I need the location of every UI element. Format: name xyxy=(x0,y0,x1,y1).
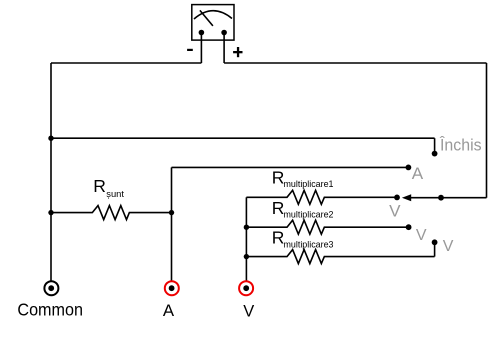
wire meter minus lead xyxy=(200,33,202,64)
resistor R_sunt zigzag row xyxy=(51,206,172,220)
wire A contact row xyxy=(172,166,409,168)
contact V2 dot xyxy=(406,224,412,230)
svg-text:multiplicare2: multiplicare2 xyxy=(284,209,334,220)
contact V3 dot xyxy=(432,239,438,245)
terminal Common dot xyxy=(48,285,54,291)
junction left-inchis xyxy=(48,136,53,141)
meter M1 scale arc xyxy=(194,11,232,19)
svg-text:multiplicare3: multiplicare3 xyxy=(284,238,334,249)
wire inchis row xyxy=(51,137,435,139)
wire A vertical xyxy=(171,167,173,288)
svg-text:A: A xyxy=(412,164,424,183)
wire right vertical xyxy=(486,63,488,198)
svg-text:V: V xyxy=(443,238,454,255)
svg-text:R: R xyxy=(93,176,106,196)
svg-text:multiplicare1: multiplicare1 xyxy=(284,178,334,189)
contact Inchis dot xyxy=(432,151,438,157)
meter M1 needle xyxy=(200,10,213,26)
wire multiplier bus vertical xyxy=(245,197,247,288)
junction shunt-A xyxy=(169,210,174,215)
svg-text:Închis: Închis xyxy=(439,136,482,155)
junction left-shunt xyxy=(48,210,53,215)
wire top right horizontal xyxy=(224,62,486,64)
svg-text:V: V xyxy=(243,301,255,320)
terminal V ring xyxy=(239,281,253,295)
label plus horizontal bar xyxy=(233,51,242,53)
terminal A dot xyxy=(169,285,175,291)
resistor R_multiplicare3 row xyxy=(246,250,434,264)
contact A dot xyxy=(406,165,412,171)
meter M1 minus terminal dot xyxy=(199,30,205,36)
label plus vertical bar xyxy=(237,47,239,57)
wire top left horizontal xyxy=(51,62,201,64)
wire left vertical bus xyxy=(50,63,52,288)
meter M1 box xyxy=(192,5,234,41)
svg-text:A: A xyxy=(163,301,175,320)
switch wiper arrowhead xyxy=(402,194,411,201)
contact V1 dot xyxy=(394,195,400,201)
svg-text:șunt: șunt xyxy=(106,188,124,199)
junction bus-row2 xyxy=(244,225,249,230)
svg-text:V: V xyxy=(416,227,427,244)
svg-text:V: V xyxy=(389,202,401,221)
resistor R_multiplicare2 row xyxy=(246,220,408,234)
switch wiper arm xyxy=(411,197,442,199)
wire meter plus lead xyxy=(223,33,225,64)
wire switch pole row xyxy=(441,197,487,199)
wire inchis drop xyxy=(434,138,436,153)
terminal V dot xyxy=(243,285,249,291)
wire V3 riser xyxy=(434,242,436,256)
terminal A ring xyxy=(165,281,179,295)
svg-text:Common: Common xyxy=(17,300,83,320)
meter M1 plus terminal dot xyxy=(221,30,227,36)
terminal Common ring xyxy=(44,281,58,295)
resistor R_multiplicare1 row xyxy=(246,190,397,204)
switch pole dot xyxy=(438,195,444,201)
label minus xyxy=(187,49,193,51)
junction bus-row3 xyxy=(244,254,249,259)
